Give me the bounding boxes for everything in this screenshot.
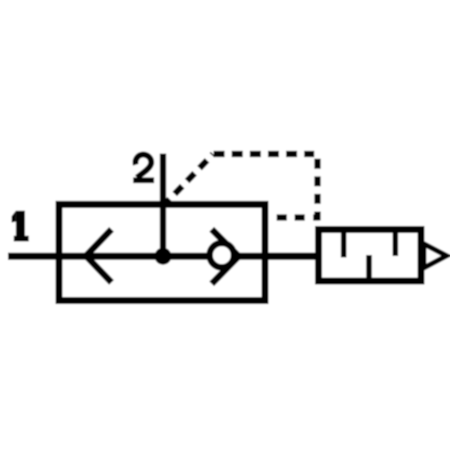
wire box to silencer xyxy=(265,253,319,260)
silencer baffle 3 xyxy=(392,230,398,256)
silencer exhaust triangle xyxy=(424,244,447,268)
pilot dashed line diagonal xyxy=(166,154,213,203)
silencer baffle 2 xyxy=(366,255,372,281)
wire port 2 (vertical line) xyxy=(160,154,166,257)
silencer body xyxy=(319,230,422,282)
check valve seat xyxy=(212,229,239,283)
label 2 xyxy=(133,155,154,184)
junction node dot xyxy=(155,248,172,265)
exhaust arrow (left check symbol) xyxy=(86,229,112,282)
pilot dashed line right vertical xyxy=(314,159,320,221)
check valve ball xyxy=(210,243,234,267)
wire port 1 (main horizontal line) xyxy=(8,253,318,260)
pilot dashed line bottom horizontal xyxy=(277,214,320,220)
valve body box xyxy=(59,204,265,300)
silencer baffle 1 xyxy=(341,230,347,258)
pilot dashed line top horizontal xyxy=(214,151,315,157)
label 1 xyxy=(12,211,29,242)
